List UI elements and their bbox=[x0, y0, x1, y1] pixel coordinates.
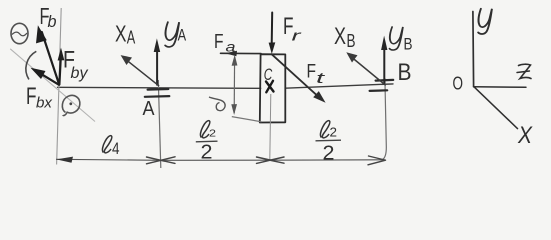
svg-text:X: X bbox=[517, 122, 533, 149]
reaction X_A arrow bbox=[121, 55, 159, 86]
dimension line bottom bbox=[56, 159, 384, 160]
svg-text:b: b bbox=[48, 12, 57, 31]
label y_B cursive bbox=[389, 27, 412, 54]
svg-text:X: X bbox=[334, 23, 346, 50]
dimension d vertical line with arrows bbox=[231, 55, 237, 115]
force F_B arrow bbox=[36, 25, 59, 84]
svg-text:B: B bbox=[398, 59, 412, 86]
bearing B vertical line bbox=[383, 78, 387, 160]
svg-text:X: X bbox=[115, 21, 127, 47]
label l2/2 fraction left bbox=[196, 121, 218, 164]
svg-text:by: by bbox=[71, 65, 89, 82]
force F_t arrow bbox=[272, 55, 326, 103]
svg-text:B: B bbox=[347, 31, 356, 51]
dimension arrow right end at B bbox=[368, 156, 386, 165]
label z axis with crossbar bbox=[517, 64, 531, 78]
bearing A ticks bbox=[145, 89, 170, 97]
svg-text:bx: bx bbox=[36, 95, 53, 112]
dimension bowtie arrows at C bbox=[257, 157, 285, 163]
svg-text:A: A bbox=[127, 28, 136, 48]
svg-text:O: O bbox=[453, 73, 464, 94]
dimension bowtie arrows at A bbox=[147, 157, 176, 164]
wire main shaft axis right segment gear to B bbox=[285, 84, 393, 88]
gear center extension line bbox=[270, 94, 271, 160]
svg-text:A: A bbox=[178, 26, 187, 45]
node D symbol bbox=[62, 95, 80, 115]
node C x-mark bbox=[266, 81, 274, 93]
reaction X_B arrow bbox=[346, 52, 385, 85]
label F_Bx bbox=[26, 83, 53, 112]
dimension arrow left end bbox=[56, 157, 73, 163]
bearing B ticks bbox=[370, 80, 394, 91]
svg-text:a: a bbox=[226, 40, 237, 55]
force F_a arrow with top extension line bbox=[221, 51, 262, 57]
bearing A vertical line bbox=[158, 80, 161, 168]
svg-text:2: 2 bbox=[330, 125, 338, 140]
gear block C rectangle bbox=[260, 54, 286, 122]
svg-text:F: F bbox=[26, 83, 37, 110]
wire faint diagonal construction line through D bbox=[10, 49, 95, 122]
wire main shaft axis left segment D to gear bbox=[58, 87, 261, 88]
label y axis cursive bbox=[478, 9, 492, 34]
reaction Y_B arrow bbox=[381, 36, 387, 84]
label l2/2 fraction right bbox=[316, 121, 342, 165]
coordinate system x axis bbox=[474, 87, 518, 129]
dimension d bottom extension line bbox=[232, 117, 262, 122]
reaction Y_A arrow bbox=[154, 38, 161, 84]
coordinate system z axis bbox=[474, 86, 526, 89]
label X_A bbox=[115, 21, 135, 48]
svg-text:2: 2 bbox=[209, 129, 217, 140]
label F_B bbox=[40, 3, 57, 31]
label X_B bbox=[334, 23, 356, 51]
svg-text:F: F bbox=[214, 30, 224, 53]
force F_By arrow bbox=[58, 48, 65, 85]
force F_r arrow bbox=[269, 13, 276, 55]
paper background bbox=[0, 0, 551, 186]
label F_t bbox=[307, 62, 326, 88]
svg-text:B: B bbox=[404, 35, 413, 54]
node D construction vertical line bbox=[57, 8, 62, 165]
label d bbox=[209, 97, 225, 111]
label F_By bbox=[63, 47, 88, 83]
angle arc theta bbox=[26, 51, 36, 79]
svg-text:F: F bbox=[307, 62, 317, 83]
svg-text:2: 2 bbox=[201, 142, 213, 164]
label l4 bbox=[102, 136, 119, 158]
label F_r bbox=[283, 13, 302, 45]
force F_Bx arrow bbox=[31, 68, 60, 85]
svg-text:2: 2 bbox=[323, 143, 335, 165]
label F_a bbox=[214, 30, 236, 55]
label y_A cursive bbox=[165, 22, 186, 47]
svg-text:A: A bbox=[143, 98, 156, 120]
svg-text:4: 4 bbox=[112, 140, 120, 158]
coordinate system y axis bbox=[472, 12, 475, 87]
theta symbol bbox=[11, 23, 28, 43]
